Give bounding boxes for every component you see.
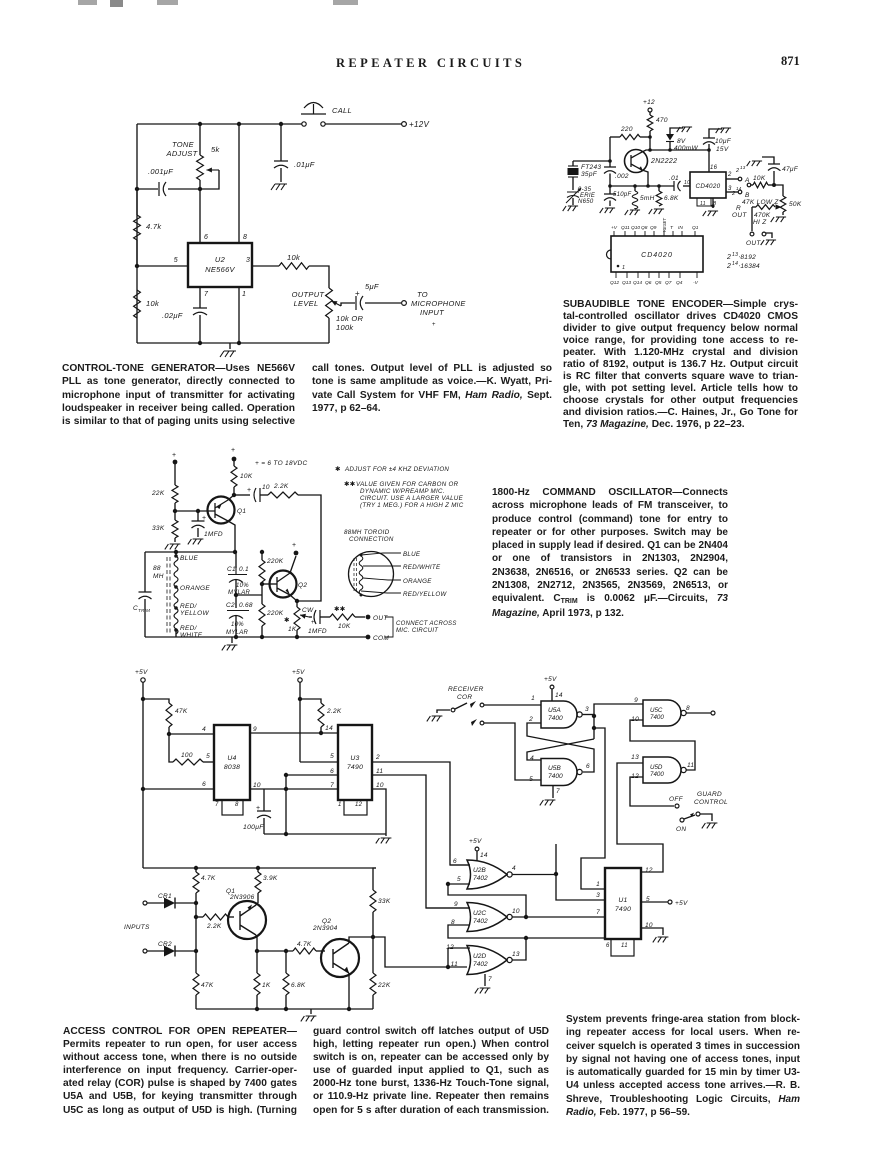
svg-text:1: 1 xyxy=(622,265,625,271)
svg-text:47K: 47K xyxy=(201,982,214,989)
svg-text:1: 1 xyxy=(242,291,246,298)
svg-text:220K: 220K xyxy=(266,558,284,565)
svg-text:6: 6 xyxy=(202,781,206,788)
capacitor CTRIM xyxy=(144,552,146,592)
svg-text:35pF: 35pF xyxy=(581,171,598,178)
svg-text:7: 7 xyxy=(488,976,492,983)
svg-text:88MH TOROID: 88MH TOROID xyxy=(344,529,390,536)
junction dot 22K/33K xyxy=(173,509,177,513)
wire COR to U5B pin5 xyxy=(484,723,541,780)
svg-text:Q12: Q12 xyxy=(610,280,619,286)
resistor 220K lower xyxy=(259,604,265,626)
resistor 6.8K xyxy=(285,951,287,973)
svg-text:NE566V: NE566V xyxy=(205,265,235,274)
wire Q2 emitter node xyxy=(290,595,297,601)
svg-text:9: 9 xyxy=(454,901,458,908)
svg-text:6: 6 xyxy=(586,763,590,770)
svg-text:.01: .01 xyxy=(669,175,679,182)
svg-text:7402: 7402 xyxy=(473,961,488,968)
junction dot 2.2K/pin14 xyxy=(319,731,323,735)
svg-text:6: 6 xyxy=(453,858,457,865)
svg-text:5: 5 xyxy=(457,876,461,883)
wire Q2 collector xyxy=(349,937,373,943)
wiper arrow output level xyxy=(332,301,342,306)
U1 pins 6 11 sub-box xyxy=(611,939,634,956)
node OUT xyxy=(366,615,371,620)
svg-text:+: + xyxy=(292,542,296,549)
svg-text:22K: 22K xyxy=(151,490,165,497)
transformer 88MH winding xyxy=(167,556,178,634)
svg-text:2N2222: 2N2222 xyxy=(650,158,677,165)
svg-text:U5C: U5C xyxy=(650,707,663,714)
svg-text:RED/: RED/ xyxy=(180,625,198,632)
svg-text:400mW: 400mW xyxy=(674,145,698,152)
svg-text:+12: +12 xyxy=(643,99,655,106)
junction dot cap rail xyxy=(279,122,283,126)
wire 220 down to base xyxy=(609,137,611,161)
svg-text:N650: N650 xyxy=(578,199,594,205)
ground under 1MFD xyxy=(188,539,204,544)
junction dot CR2 xyxy=(194,949,198,953)
svg-text:2N3904: 2N3904 xyxy=(312,925,338,932)
svg-text:88: 88 xyxy=(153,565,161,572)
junction dot pin6/10 xyxy=(284,773,288,777)
wire top rail schematic1 xyxy=(137,123,302,125)
potentiometer 50K xyxy=(774,185,783,196)
logic gate U2D 7402 xyxy=(467,946,512,975)
switch blade COR xyxy=(455,703,467,709)
CD4020 bottom pin wires xyxy=(615,272,617,278)
wire emitter rail xyxy=(610,185,673,187)
junction dot pin16 rail xyxy=(707,148,711,152)
ground under 5mH xyxy=(625,210,640,215)
svg-text:.001μF: .001μF xyxy=(148,167,173,176)
svg-text:Q6: Q6 xyxy=(645,280,652,286)
svg-text:Q1: Q1 xyxy=(237,508,246,515)
svg-text:11: 11 xyxy=(621,943,628,949)
capacitor 1MFD output xyxy=(309,616,312,618)
resistor 10K output filter xyxy=(747,183,751,187)
junction dot U2B pin5 xyxy=(446,882,450,886)
svg-text:Q11: Q11 xyxy=(621,225,630,231)
svg-text:12: 12 xyxy=(355,802,363,808)
svg-text:10K: 10K xyxy=(753,175,766,182)
svg-text:4: 4 xyxy=(202,726,206,733)
svg-text:5μF: 5μF xyxy=(365,282,379,291)
svg-text:LEVEL: LEVEL xyxy=(294,299,319,308)
svg-text:Q1: Q1 xyxy=(692,225,699,231)
svg-text:10: 10 xyxy=(376,782,384,789)
svg-text:47K: 47K xyxy=(175,708,188,715)
ground under trimmer xyxy=(563,206,578,211)
svg-text:⋅16384: ⋅16384 xyxy=(738,263,760,270)
switch S1 CALL pushbutton xyxy=(301,103,326,127)
resistor 100 xyxy=(169,734,173,762)
svg-text:(TRY 1 MEG.) FOR A HIGH Z MIC: (TRY 1 MEG.) FOR A HIGH Z MIC xyxy=(360,502,464,509)
wire 470 to collector rail xyxy=(649,131,651,150)
transistor Q2 2N3904 xyxy=(321,939,359,977)
junction dot U2C out xyxy=(524,915,528,919)
ground bottom schematic1 xyxy=(229,343,231,349)
svg-text:C1: C1 xyxy=(227,566,236,573)
capacitor .47uF xyxy=(773,171,775,185)
resistor 4.7K base Q2 xyxy=(293,948,316,954)
svg-text:.02μF: .02μF xyxy=(162,311,183,320)
svg-text:10%: 10% xyxy=(231,622,244,628)
capacitor 1MFD electrolytic xyxy=(197,511,199,521)
junction dot bottom pin1 xyxy=(237,341,241,345)
junction dot Q1 collector xyxy=(255,949,259,953)
svg-text:R: R xyxy=(736,205,741,212)
svg-text:ORANGE: ORANGE xyxy=(403,578,432,585)
node +12V terminal xyxy=(402,122,407,127)
svg-text:5mH: 5mH xyxy=(640,195,655,202)
wire U2C input 8 xyxy=(448,925,526,938)
svg-text:1K: 1K xyxy=(262,982,271,989)
svg-text:10K: 10K xyxy=(240,473,253,480)
wire COR to U5A pin1 xyxy=(484,704,541,706)
svg-text:470K: 470K xyxy=(754,212,771,219)
wire U2D input 12 xyxy=(448,947,470,949)
wire left rail schematic1 xyxy=(136,124,138,343)
svg-text:11: 11 xyxy=(687,762,694,769)
svg-text:+: + xyxy=(172,452,176,459)
svg-text:INPUTS: INPUTS xyxy=(124,924,150,931)
junction dot transformer top xyxy=(174,550,178,554)
wire U2B input 5 feedback xyxy=(448,883,470,885)
svg-text:2.2K: 2.2K xyxy=(273,483,289,490)
svg-text:U2B: U2B xyxy=(473,867,486,874)
switch receiver COR xyxy=(427,716,443,721)
svg-text:0.68: 0.68 xyxy=(239,602,253,609)
wiper arrow 1K xyxy=(300,614,309,619)
svg-text:OUT: OUT xyxy=(373,615,388,622)
resistor 47K bias xyxy=(143,699,169,703)
svg-text:MH: MH xyxy=(153,573,164,580)
svg-text:13: 13 xyxy=(512,951,520,958)
svg-text:INPUT: INPUT xyxy=(420,308,445,317)
svg-text:10%: 10% xyxy=(236,583,249,589)
svg-text:4.7K: 4.7K xyxy=(297,941,312,948)
wire rail to CD4020 pin 16 xyxy=(708,150,710,172)
svg-text:15V: 15V xyxy=(716,146,729,153)
svg-text:2.2K: 2.2K xyxy=(326,708,342,715)
potentiometer 1K xyxy=(296,601,298,607)
svg-text:⋅8192: ⋅8192 xyxy=(738,254,756,261)
svg-text:WHITE: WHITE xyxy=(180,632,203,639)
svg-text:✱✱: ✱✱ xyxy=(344,480,356,488)
transformer taps labels xyxy=(174,554,178,558)
svg-text:U2C: U2C xyxy=(473,910,486,917)
svg-text:11: 11 xyxy=(376,768,383,775)
bracket connect across mic xyxy=(385,617,393,637)
svg-text:2: 2 xyxy=(727,172,732,178)
junction dot emitter/cap xyxy=(232,493,236,497)
svg-text:U5D: U5D xyxy=(650,764,663,771)
svg-text:RESET: RESET xyxy=(662,218,667,232)
node COM xyxy=(366,635,371,640)
wire to Q2 base xyxy=(262,583,277,585)
wire U5D pin13 to U1 pin12 xyxy=(617,763,663,872)
wire U2C input 9 xyxy=(426,907,470,909)
resistor 10k lower-left xyxy=(134,290,141,318)
wiper arrow 5k xyxy=(207,168,220,173)
U4 pins 7 8 sub-box xyxy=(222,800,243,815)
svg-text:100k: 100k xyxy=(336,323,354,332)
svg-text:14: 14 xyxy=(555,692,563,699)
resistor 2.2K xyxy=(268,492,298,498)
wire to pin 5 xyxy=(137,265,188,267)
svg-text:FT243: FT243 xyxy=(581,164,601,171)
svg-text:1K: 1K xyxy=(288,626,297,633)
logic gate U2C 7402 xyxy=(467,903,512,932)
svg-text:TRIM: TRIM xyxy=(138,608,150,613)
svg-text:RED/WHITE: RED/WHITE xyxy=(403,564,441,571)
svg-text:.47μF: .47μF xyxy=(780,166,799,173)
svg-text:2: 2 xyxy=(731,191,735,197)
svg-text:ON: ON xyxy=(676,826,686,833)
junction dot emitter out xyxy=(295,599,299,603)
svg-text:BLUE: BLUE xyxy=(403,551,421,558)
svg-text:OUT: OUT xyxy=(732,212,747,219)
junction dot .001uF right xyxy=(198,187,202,191)
crystal FT243 35pF xyxy=(573,160,610,162)
svg-text:RECEIVER: RECEIVER xyxy=(448,686,484,693)
svg-text:6: 6 xyxy=(606,943,610,949)
capacitor .01uF xyxy=(280,124,282,161)
svg-text:U3: U3 xyxy=(350,755,359,762)
svg-text:9: 9 xyxy=(634,697,638,704)
svg-text:10: 10 xyxy=(512,908,520,915)
latch cross wires xyxy=(593,716,595,739)
logic gate U5C 7400 xyxy=(643,700,686,726)
svg-text:0.1: 0.1 xyxy=(239,566,249,573)
wire bottom rail xyxy=(196,1008,373,1010)
svg-text:B: B xyxy=(745,192,750,199)
svg-text:33K: 33K xyxy=(152,525,165,532)
svg-text:510pF: 510pF xyxy=(613,192,632,198)
svg-text:6.8K: 6.8K xyxy=(291,982,306,989)
junction dot pin4 xyxy=(167,732,171,736)
resistor 10K xyxy=(231,466,237,487)
CD4020 top pin wires xyxy=(613,231,615,236)
svg-text:7400: 7400 xyxy=(548,773,563,780)
junction dot 220K top xyxy=(260,550,264,554)
transistor Q2 xyxy=(270,571,297,598)
svg-text:7: 7 xyxy=(556,788,560,795)
svg-text:5: 5 xyxy=(174,257,178,264)
svg-text:2: 2 xyxy=(735,168,739,174)
svg-text:3: 3 xyxy=(596,892,600,899)
svg-text:CD4020: CD4020 xyxy=(696,183,721,190)
svg-text:10K: 10K xyxy=(338,623,351,630)
svg-text:2: 2 xyxy=(375,754,380,761)
svg-text:Q14: Q14 xyxy=(633,280,642,286)
svg-text:ADJUST: ADJUST xyxy=(166,149,199,158)
svg-text:9: 9 xyxy=(253,726,257,733)
svg-text:2N3906: 2N3906 xyxy=(229,894,255,901)
svg-text:OFF: OFF xyxy=(669,796,684,803)
node OUT terminals xyxy=(750,232,754,236)
junction dot collector rail xyxy=(233,550,237,554)
svg-text:7: 7 xyxy=(215,802,219,808)
svg-text:2: 2 xyxy=(726,263,731,270)
svg-text:7402: 7402 xyxy=(473,918,488,925)
capacitor C1 0.1 xyxy=(235,552,236,568)
svg-text:Q8: Q8 xyxy=(641,225,648,231)
svg-text:BLUE: BLUE xyxy=(180,555,199,562)
svg-text:6: 6 xyxy=(204,234,208,241)
svg-text:COM: COM xyxy=(373,635,389,642)
svg-text:Q5: Q5 xyxy=(655,280,662,286)
svg-text:+5V: +5V xyxy=(675,900,688,907)
svg-text:Q9: Q9 xyxy=(650,225,657,231)
wire Q2 collector to + xyxy=(290,556,296,573)
junction dot U2B out xyxy=(554,872,558,876)
svg-text:14: 14 xyxy=(325,725,333,732)
svg-text:50K: 50K xyxy=(789,201,802,208)
wire switch to +12V xyxy=(325,123,402,125)
svg-text:-V: -V xyxy=(693,280,699,286)
junction dot pin5 node xyxy=(135,264,139,268)
toroid detail circle xyxy=(349,552,394,597)
wire 470K to OUT xyxy=(751,207,753,231)
capacitor 510pF xyxy=(609,186,611,194)
resistor 22K xyxy=(172,485,178,503)
resistor 220 xyxy=(610,136,620,138)
svg-text:14: 14 xyxy=(736,186,742,191)
svg-text:VALUE GIVEN FOR CARBON OR: VALUE GIVEN FOR CARBON OR xyxy=(356,481,459,488)
resistor 1K xyxy=(254,973,260,995)
capacitor 5uF xyxy=(341,303,355,306)
svg-text:CIRCUIT. USE A LARGER VALUE: CIRCUIT. USE A LARGER VALUE xyxy=(360,495,464,502)
svg-text:6: 6 xyxy=(330,768,334,775)
svg-text:1MFD: 1MFD xyxy=(308,628,327,635)
svg-text:Q4: Q4 xyxy=(676,280,683,286)
ground under 510pF xyxy=(600,208,615,213)
resistor 10K output xyxy=(320,616,330,618)
potentiometer output level 10k/100k xyxy=(326,288,333,318)
transistor Q 2N2222 xyxy=(625,150,648,173)
wire to U4 pin 4 xyxy=(169,733,214,735)
svg-text:6.8K: 6.8K xyxy=(664,195,679,202)
svg-text:Q7: Q7 xyxy=(665,280,672,286)
resistor 33K xyxy=(373,868,376,890)
wire Q2 emitter xyxy=(348,973,350,1009)
resistor 10k output xyxy=(279,263,309,269)
svg-text:ADJUST FOR ±4 KHZ DEVIATION: ADJUST FOR ±4 KHZ DEVIATION xyxy=(344,466,449,473)
svg-text:7400: 7400 xyxy=(650,771,664,778)
op-amp U CD4020 DIP box xyxy=(607,236,703,272)
svg-text:8V: 8V xyxy=(677,138,686,145)
toroid detail leads xyxy=(361,553,401,555)
switch guard control xyxy=(675,804,679,808)
svg-text:T: T xyxy=(670,225,674,231)
svg-text:10k: 10k xyxy=(146,299,160,308)
svg-text:10k OR: 10k OR xyxy=(336,314,364,323)
junction dot U5A out xyxy=(592,714,596,718)
wire Q2 collector to U2D pin11 xyxy=(373,937,467,967)
svg-text:ORANGE: ORANGE xyxy=(180,585,210,592)
wire base Q2 xyxy=(257,950,293,952)
resistor 4.7K input xyxy=(195,868,197,872)
wire U3 pin 5 xyxy=(300,761,338,763)
capacitor C2 0.68 xyxy=(235,595,237,608)
op-amp U4 8038 box xyxy=(214,725,250,800)
wire top rail tank xyxy=(145,551,235,553)
wire emitter down xyxy=(642,170,648,186)
wire cap node vertical xyxy=(285,775,287,834)
svg-text:8: 8 xyxy=(686,705,690,712)
svg-text:CONNECTION: CONNECTION xyxy=(349,536,394,543)
svg-text:✱✱: ✱✱ xyxy=(334,605,346,613)
junction dot pin6 tap xyxy=(141,787,145,791)
wire 10k to pot xyxy=(309,266,329,288)
svg-text:7: 7 xyxy=(330,782,334,789)
svg-text:13: 13 xyxy=(740,165,746,170)
svg-text:4: 4 xyxy=(530,755,534,762)
svg-text:+: + xyxy=(432,322,436,328)
svg-text:DYNAMIC W/PREAMP MIC.: DYNAMIC W/PREAMP MIC. xyxy=(360,488,445,495)
wire base Q1 xyxy=(175,510,215,512)
junction dot pin8 rail xyxy=(237,122,241,126)
svg-text:8: 8 xyxy=(243,234,247,241)
svg-text:+: + xyxy=(311,620,315,626)
svg-text:3: 3 xyxy=(246,257,250,264)
wire feedback right side xyxy=(297,495,321,601)
resistor 22K xyxy=(372,937,374,973)
svg-text:220: 220 xyxy=(620,126,633,133)
svg-text:5k: 5k xyxy=(211,145,220,154)
svg-text:2: 2 xyxy=(528,716,533,723)
svg-text:Q13: Q13 xyxy=(622,280,631,286)
svg-text:10μF: 10μF xyxy=(715,138,732,145)
svg-text:10k: 10k xyxy=(287,253,301,262)
junction dot 6.8K tap xyxy=(284,949,288,953)
svg-text:4: 4 xyxy=(512,865,516,872)
op-amp U3 7490 box xyxy=(338,725,372,800)
svg-text:+: + xyxy=(355,289,360,298)
svg-text:7: 7 xyxy=(204,291,209,298)
svg-text:+12V: +12V xyxy=(409,120,429,129)
junction dot C1/C2 xyxy=(234,593,238,597)
svg-text:CW: CW xyxy=(302,607,314,614)
wire wiper to cap node xyxy=(201,170,219,189)
svg-text:11: 11 xyxy=(700,201,706,207)
svg-text:U5B: U5B xyxy=(548,765,561,772)
capacitor 10uF 15V xyxy=(703,138,715,145)
svg-text:HI Z: HI Z xyxy=(753,219,767,226)
svg-text:22K: 22K xyxy=(377,982,391,989)
svg-text:100μF: 100μF xyxy=(243,824,264,831)
capacitor .002 xyxy=(609,161,611,167)
U3 pins 1 12 sub-box xyxy=(344,800,367,815)
resistor 4.7k xyxy=(136,189,138,215)
wire 100uF to ground rail xyxy=(264,833,386,835)
svg-text:+5V: +5V xyxy=(469,838,482,845)
svg-text:OUT: OUT xyxy=(746,240,761,247)
wire collector rail xyxy=(650,149,709,151)
junction dot zener rail xyxy=(668,148,672,152)
svg-text:7490: 7490 xyxy=(615,906,631,913)
wire to U3 pin14 xyxy=(321,732,338,734)
wire top rail bottom schematic xyxy=(143,867,376,869)
junction dot U2D out xyxy=(524,936,528,940)
capacitor .001uF xyxy=(137,188,158,190)
junction dot 47K tap xyxy=(141,697,145,701)
node TO MICROPHONE INPUT terminal xyxy=(402,301,407,306)
wire +5V left vertical xyxy=(142,682,144,868)
